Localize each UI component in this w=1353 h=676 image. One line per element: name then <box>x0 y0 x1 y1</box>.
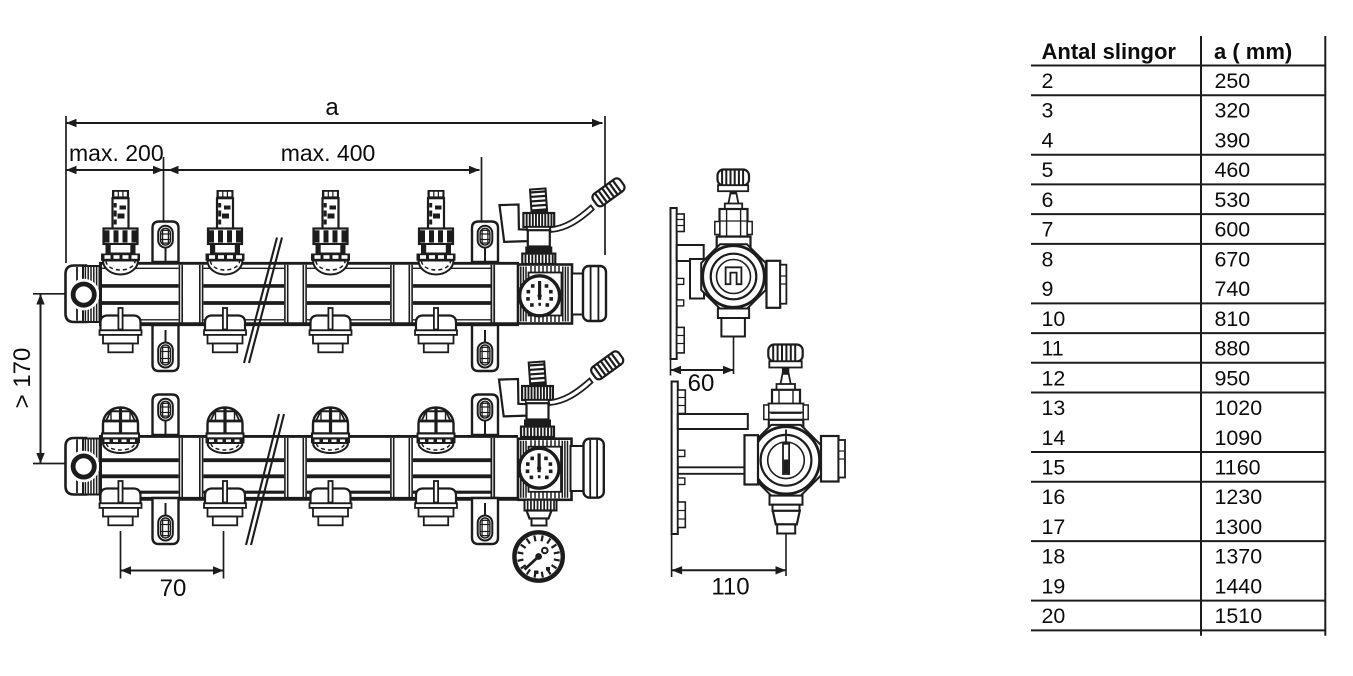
svg-text:6: 6 <box>1042 188 1054 212</box>
svg-text:10: 10 <box>1042 307 1066 331</box>
dimension 70 right extension line <box>223 531 225 579</box>
top manifold body bottom edge <box>99 322 519 326</box>
svg-text:9: 9 <box>1042 277 1054 301</box>
bottom manifold handwheel valve 2 <box>206 408 245 454</box>
side view B valve inner circle <box>768 442 805 479</box>
side view A valve body circle <box>703 246 765 308</box>
bottom manifold union nut <box>584 439 604 498</box>
side view A manifold cross-section <box>767 261 781 308</box>
dimension max. 400 line <box>164 169 480 171</box>
side view A valve stem <box>728 194 738 205</box>
bottom manifold body bottom edge <box>99 497 518 501</box>
svg-text:8: 8 <box>1042 247 1054 271</box>
bottom manifold connector <box>571 446 584 491</box>
svg-text:a: a <box>325 94 339 121</box>
svg-text:1230: 1230 <box>1215 485 1263 509</box>
svg-text:7: 7 <box>1042 218 1054 242</box>
table column separator line <box>1200 36 1202 636</box>
svg-text:1440: 1440 <box>1215 574 1263 598</box>
side view A handwheel knob <box>718 170 750 197</box>
bottom manifold reducer flange <box>525 500 557 511</box>
bottom manifold outlet 1 <box>100 481 142 525</box>
svg-text:740: 740 <box>1215 277 1251 301</box>
top manifold fill valve <box>522 188 555 264</box>
bottom manifold outlet 3 <box>310 481 352 525</box>
bottom manifold end cap <box>66 438 87 495</box>
svg-text:16: 16 <box>1042 485 1066 509</box>
side view B key indicator <box>783 430 789 475</box>
bottom manifold bracket 1 lower part <box>153 498 179 544</box>
svg-text:1160: 1160 <box>1215 455 1261 479</box>
dimension max. 200/400 shared extension line <box>163 157 165 227</box>
dimension max. 400 right extension line <box>481 157 483 227</box>
svg-text:12: 12 <box>1042 366 1066 390</box>
side view B valve flange <box>777 384 796 390</box>
side view A valve innermost circle <box>717 260 751 294</box>
top manifold outlet 3 <box>310 308 352 352</box>
svg-text:18: 18 <box>1042 545 1066 569</box>
bottom manifold drain port circle <box>68 451 100 483</box>
bottom manifold body stripes <box>101 460 491 492</box>
side view A outlet <box>721 318 745 337</box>
side view B lower nut <box>773 511 800 525</box>
side view B valve middle circle <box>761 435 812 486</box>
svg-text:390: 390 <box>1215 128 1251 152</box>
svg-text:5: 5 <box>1042 158 1054 182</box>
side view B manifold pipe cross-section <box>745 435 759 484</box>
top manifold end cap knurled ring <box>83 266 100 322</box>
svg-text:13: 13 <box>1042 396 1066 420</box>
side view B manifold end plate <box>839 440 846 478</box>
top manifold bracket 2 upper part <box>472 222 498 263</box>
top manifold valve 3 <box>311 190 350 275</box>
svg-text:14: 14 <box>1042 426 1066 450</box>
top manifold connector <box>572 274 583 315</box>
side view A wall plate <box>671 208 685 359</box>
top manifold body left edge <box>99 262 102 326</box>
svg-text:530: 530 <box>1215 188 1251 212</box>
svg-text:110: 110 <box>711 574 749 601</box>
top manifold union nut <box>583 266 606 321</box>
svg-text:320: 320 <box>1215 99 1251 123</box>
bottom manifold gauge neck <box>532 519 547 526</box>
dimension a line <box>66 122 603 124</box>
side view B valve octagon nut <box>751 425 822 496</box>
bottom manifold handwheel valve 3 <box>311 408 350 454</box>
top manifold body stripes <box>101 268 491 320</box>
bottom manifold pressure gauge <box>514 532 562 580</box>
svg-text:70: 70 <box>160 575 187 602</box>
bottom manifold outlet 2 <box>204 481 246 525</box>
top manifold outlet 1 <box>100 308 142 352</box>
svg-text:880: 880 <box>1215 337 1251 361</box>
side view B handwheel knob <box>768 345 802 374</box>
dimension > 170 top extension line <box>33 293 65 295</box>
top manifold bracket 1 lower part <box>153 325 179 371</box>
dimension 110 line <box>672 569 786 571</box>
side view A manifold end plate <box>780 265 786 304</box>
bottom manifold handwheel valve 4 <box>417 408 456 454</box>
bottom manifold flow-meter block with dial <box>518 439 572 500</box>
top manifold outlet 4 <box>415 308 457 352</box>
dimension 60 line <box>671 369 734 371</box>
svg-text:20: 20 <box>1042 604 1066 628</box>
svg-text:2: 2 <box>1042 69 1054 93</box>
table right border line <box>1324 36 1326 636</box>
top manifold valve 1 <box>101 190 140 275</box>
bottom manifold fill valve <box>521 361 554 437</box>
table row separator lines <box>1031 95 1325 630</box>
svg-text:1300: 1300 <box>1215 515 1263 539</box>
bottom manifold reducer hex <box>527 511 552 519</box>
bottom manifold lever handle <box>549 350 626 405</box>
bottom manifold handwheel valve 1 <box>101 408 140 454</box>
svg-text:460: 460 <box>1215 158 1251 182</box>
top manifold body top edge <box>99 262 519 265</box>
svg-text:max. 200: max. 200 <box>69 140 164 166</box>
side view B valve body circle <box>752 427 819 494</box>
dimension max. 200 line <box>66 169 164 171</box>
dimension 70 line <box>121 570 224 572</box>
top manifold bracket 2 lower part <box>472 325 498 371</box>
top manifold section couplings <box>179 265 494 323</box>
top manifold lever handle <box>550 177 627 232</box>
side view A left pipe stub <box>690 259 704 299</box>
svg-text:250: 250 <box>1215 69 1251 93</box>
dimension > 170 line <box>40 294 42 464</box>
bottom manifold section couplings <box>179 438 494 497</box>
bottom manifold break line <box>246 414 284 545</box>
side view B center line <box>785 534 787 577</box>
dimension 110 plate extension <box>671 534 673 577</box>
side view B manifold pipe lines <box>678 467 744 474</box>
svg-text:Antal slingor: Antal slingor <box>1042 39 1177 64</box>
svg-text:a ( mm): a ( mm) <box>1214 39 1292 64</box>
side view A valve flange <box>725 204 742 210</box>
bottom manifold body top edge <box>99 435 518 438</box>
svg-text:max. 400: max. 400 <box>281 140 376 166</box>
svg-text:60: 60 <box>688 370 715 397</box>
bottom manifold end cap knurled ring <box>83 439 100 495</box>
top manifold end cap <box>66 266 87 323</box>
svg-text:1370: 1370 <box>1215 545 1263 569</box>
side view A valve collar <box>717 237 751 247</box>
side view B bracket arm <box>678 414 748 429</box>
side view A paddle indicator <box>726 267 742 284</box>
bottom manifold lever tag <box>499 379 530 416</box>
side view A lower flange <box>718 309 749 319</box>
side view B outlet foot <box>777 524 795 533</box>
bottom manifold outlet 4 <box>415 481 457 525</box>
svg-text:670: 670 <box>1215 247 1251 271</box>
svg-text:3: 3 <box>1042 99 1054 123</box>
side view A valve upper body <box>715 209 752 237</box>
side view B wall plate <box>672 382 686 535</box>
side view B valve collar <box>769 420 804 429</box>
svg-text:17: 17 <box>1042 515 1066 539</box>
top manifold break line <box>244 238 282 364</box>
dimension a left extension line <box>65 116 67 263</box>
svg-text:19: 19 <box>1042 574 1066 598</box>
dimension 70 left extension line <box>120 531 122 579</box>
svg-text:810: 810 <box>1215 307 1251 331</box>
svg-text:600: 600 <box>1215 218 1251 242</box>
top manifold valve 2 <box>206 190 245 275</box>
svg-text:> 170: > 170 <box>9 348 36 409</box>
svg-text:1090: 1090 <box>1215 426 1263 450</box>
svg-text:15: 15 <box>1042 455 1066 479</box>
top manifold bracket 1 upper part <box>153 222 179 263</box>
top manifold outlet 2 <box>204 308 246 352</box>
svg-text:1510: 1510 <box>1215 604 1263 628</box>
dimension > 170 bottom extension line <box>33 463 65 465</box>
dimension a right extension line <box>604 116 606 255</box>
side view B lower collar <box>770 496 803 505</box>
svg-text:4: 4 <box>1042 128 1054 152</box>
bottom manifold bracket 2 lower part <box>472 498 498 544</box>
bottom manifold bracket 2 upper part <box>472 395 498 436</box>
svg-text:11: 11 <box>1042 337 1064 361</box>
side view B valve stem <box>780 374 791 386</box>
svg-text:1020: 1020 <box>1215 396 1263 420</box>
table header underline <box>1031 65 1325 67</box>
side view B lower flange <box>773 505 800 511</box>
side view A valve inner circle <box>711 254 757 300</box>
dimension 60 plate extension <box>670 359 672 376</box>
side view A valve octagon nut <box>701 244 766 309</box>
top manifold valve 4 <box>417 190 456 275</box>
svg-text:950: 950 <box>1215 366 1251 390</box>
side view B manifold right section <box>821 436 839 482</box>
bottom manifold body left edge <box>99 435 102 501</box>
bottom manifold bracket 1 upper part <box>153 395 179 436</box>
top manifold flow-meter block with dial <box>518 265 572 324</box>
top manifold lever tag <box>500 205 531 242</box>
top manifold drain port circle <box>68 279 100 311</box>
side view A bracket arm <box>677 245 704 261</box>
side view B valve upper body <box>764 390 808 420</box>
side view A center line <box>733 337 735 375</box>
